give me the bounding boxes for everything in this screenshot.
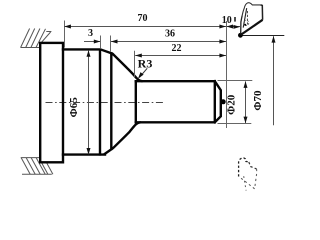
end chamfers + face xyxy=(215,81,221,122)
dimension extension lines xyxy=(65,21,253,129)
dim 10 xyxy=(222,15,240,29)
workpiece outline xyxy=(40,43,221,162)
cutting tool ghost (dashed, end position) xyxy=(239,158,257,191)
centerline (axis) xyxy=(46,102,164,104)
concave curve bottom xyxy=(105,122,140,153)
cutting tool (solid, at start position) xyxy=(235,3,263,38)
svg-text:3: 3 xyxy=(88,28,93,39)
interior edge C (cylinder start) xyxy=(135,81,137,122)
origin dot on end face xyxy=(221,99,226,104)
interior edge A xyxy=(99,50,101,155)
dim phi20 xyxy=(225,81,247,123)
svg-text:Φ65: Φ65 xyxy=(68,97,80,118)
dim R3 leader xyxy=(136,56,152,80)
dim 3 xyxy=(84,28,100,43)
interior edge B xyxy=(110,53,112,148)
svg-text:R3: R3 xyxy=(138,56,153,70)
dim 36 xyxy=(111,28,226,43)
cylinder top edge xyxy=(136,80,215,82)
concave curve top xyxy=(111,53,141,81)
svg-text:Φ70: Φ70 xyxy=(252,90,264,111)
cylinder bottom edge xyxy=(136,121,215,123)
dim 22 xyxy=(135,43,226,58)
svg-text:22: 22 xyxy=(172,43,182,54)
body bottom edge xyxy=(63,153,105,155)
dim 70 xyxy=(64,13,226,29)
svg-text:36: 36 xyxy=(165,28,175,39)
svg-text:70: 70 xyxy=(138,13,148,24)
stock reference line from tool tip xyxy=(242,35,284,37)
chuck jaw hatching (bottom) xyxy=(21,158,53,175)
chuck jaw hatching (top) xyxy=(21,29,52,48)
end chamfer edge circle xyxy=(214,81,216,122)
dim phi70 xyxy=(252,36,276,125)
body top edge xyxy=(63,49,111,53)
svg-text:Φ20: Φ20 xyxy=(225,94,237,115)
dim phi65 xyxy=(68,50,91,154)
flange rectangle xyxy=(40,43,63,162)
svg-text:10: 10 xyxy=(222,15,232,26)
